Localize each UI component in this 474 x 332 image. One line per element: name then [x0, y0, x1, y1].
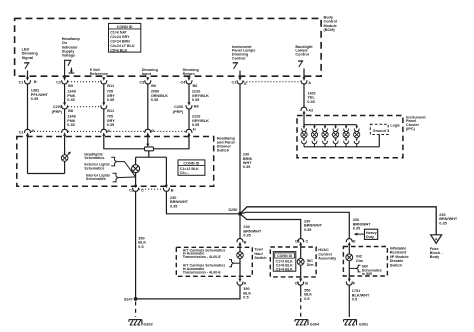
wire HVAC lamp to pin B — [300, 265, 302, 279]
svg-text:350BLK0.5: 350BLK0.5 — [138, 236, 146, 248]
svg-text:A/T Controls Schematicsin Auto: A/T Controls Schematicsin AutomaticTrans… — [183, 248, 226, 259]
svg-text:C1: C1 — [295, 282, 300, 286]
A/T bracket — [229, 260, 233, 267]
dimmer CONN ID table — [178, 160, 205, 175]
dashed lead to G302 — [135, 302, 137, 318]
SIR bracket — [357, 265, 361, 272]
branch to disable switch pin D — [240, 212, 349, 238]
svg-text:BodyControlModule(BCM): BodyControlModule(BCM) — [324, 16, 338, 32]
Dimming Input label — [142, 68, 159, 76]
IPC lamp 6 — [354, 125, 360, 147]
svg-text:InstrumentPanel LampsDimmingCo: InstrumentPanel LampsDimmingControl — [232, 45, 255, 61]
HVAC CONN ID table — [273, 252, 296, 272]
Headlights Schematics label — [84, 152, 104, 160]
wire 1348 PNK lower — [65, 109, 76, 129]
svg-text:Tow/HaulSwitch: Tow/HaulSwitch — [254, 248, 267, 260]
svg-text:1401YEL0.35: 1401YEL0.35 — [307, 91, 315, 103]
svg-text:D: D — [353, 239, 356, 243]
svg-text:INCDim: INCDim — [307, 259, 314, 267]
svg-text:G: G — [151, 129, 154, 133]
tow/haul lamp — [237, 252, 244, 259]
svg-text:CONN ID: CONN ID — [277, 254, 293, 258]
IPC lamp 3 — [322, 125, 328, 147]
svg-text:K: K — [32, 129, 35, 133]
svg-text:A: A — [435, 237, 438, 241]
A/T controls schematics labels — [183, 248, 226, 274]
IPC lamp 2 — [311, 125, 317, 147]
Interior Lights Schematics label — [86, 173, 110, 181]
wire 2226 GRY/BLK upper — [189, 84, 209, 103]
tow/haul pin A — [237, 279, 247, 286]
svg-text:C1=12 BLKC2=--: C1=12 BLKC2=-- — [180, 167, 199, 175]
headlamp-on indicator loop: wire K down — [27, 136, 29, 174]
dashed lead to G304 — [300, 298, 302, 317]
Headlamp On Indicator Supply Voltage label — [62, 37, 81, 58]
wire 550 BLK — [301, 285, 313, 301]
wire 1401 YEL — [304, 84, 316, 107]
BCM CONN ID table — [109, 23, 141, 52]
svg-text:F: F — [353, 282, 356, 286]
disable switch pin F — [346, 279, 356, 286]
wire BCM to pin C1-E — [239, 71, 241, 78]
Dimming Return label — [183, 68, 200, 76]
IP lamps dimming output arrow — [233, 63, 238, 69]
label 230 BRN/WHT D branch — [353, 218, 372, 230]
HVAC pin C1-B — [295, 279, 309, 286]
loop bottom wire — [28, 173, 65, 175]
svg-text:C1: C1 — [129, 189, 134, 193]
Instrument Panel Lamps Dimming Control label — [232, 45, 255, 61]
connector dotted link C2 to B11 — [68, 81, 101, 83]
LED dimming output arrow — [24, 63, 29, 69]
svg-text:C1: C1 — [18, 80, 23, 84]
svg-text:L: L — [67, 129, 70, 133]
svg-text:A: A — [244, 282, 247, 286]
svg-text:SIRSchematicsin SIR: SIRSchematicsin SIR — [362, 265, 382, 276]
pin C1-B — [18, 77, 36, 84]
svg-text:Interior LightsSchematics: Interior LightsSchematics — [86, 173, 110, 181]
ground G302 — [129, 320, 153, 327]
svg-text:INCDim: INCDim — [356, 255, 363, 263]
svg-text:InflatableRestraintI/P ModuleD: InflatableRestraintI/P ModuleDisableSwit… — [390, 247, 409, 268]
svg-text:A: A — [308, 81, 311, 85]
svg-text:C1: C1 — [232, 80, 237, 84]
wire 705 GRY lower — [104, 109, 115, 129]
pin C1-E — [232, 77, 248, 86]
svg-text:G304: G304 — [310, 322, 320, 326]
svg-text:C1: C1 — [295, 239, 300, 243]
svg-text:B9: B9 — [68, 84, 73, 88]
dimmer bottom pin C — [129, 185, 144, 193]
wire BCM to pin A — [303, 69, 305, 78]
dotted link C-B — [139, 188, 163, 190]
pin C2-B9 — [56, 77, 73, 88]
IPC lamp 4 — [333, 125, 339, 147]
svg-text:705GRY0.35: 705GRY0.35 — [107, 90, 116, 102]
svg-text:(PRP): (PRP) — [173, 110, 184, 114]
label 230 BRN/WHT HVAC branch — [304, 220, 323, 232]
tow/haul pin B — [237, 239, 247, 246]
IPC bottom bus — [304, 146, 379, 148]
connector C205 pin B8 — [52, 102, 73, 114]
headlamp and panel dimmer switch box — [17, 137, 236, 187]
potentiometer resistor — [145, 147, 154, 151]
svg-text:5 VoltReference: 5 VoltReference — [90, 68, 108, 76]
fuse block triangle — [431, 235, 442, 244]
svg-text:2090ORN/BLK0.35: 2090ORN/BLK0.35 — [151, 90, 169, 102]
svg-text:HeadlampOnIndicatorSupplyVolta: HeadlampOnIndicatorSupplyVoltage — [62, 37, 81, 58]
line from exterior bracket — [116, 162, 135, 177]
wire ground box to bus — [378, 135, 380, 147]
svg-text:S247: S247 — [124, 298, 133, 302]
pin A (backlight) — [301, 77, 311, 85]
dotted link L-A — [68, 130, 100, 132]
svg-text:1751BLK/WHT0.5: 1751BLK/WHT0.5 — [352, 289, 370, 301]
wire SIR lamp to pin F — [348, 261, 350, 279]
heavy duty flag — [354, 229, 378, 239]
SIR lamp — [346, 254, 353, 261]
svg-text:1348PNK0.35: 1348PNK0.35 — [67, 115, 75, 127]
wire 350 BLK from pin C down to S247 — [136, 191, 147, 299]
wire 230 BRN/WHT from pin B to S250 — [166, 191, 238, 214]
dotted link G-H — [151, 130, 185, 132]
svg-text:CONN ID: CONN ID — [117, 25, 133, 29]
svg-text:B8: B8 — [68, 109, 73, 113]
svg-text:S250: S250 — [228, 208, 237, 212]
line bracket to wire — [349, 267, 356, 269]
IPC lamp 1 — [301, 125, 307, 147]
svg-text:Logic: Logic — [390, 124, 400, 128]
svg-text:HeadlightsSchematics: HeadlightsSchematics — [84, 152, 104, 160]
svg-text:HeavyDuty: HeavyDuty — [366, 231, 377, 239]
svg-text:B: B — [171, 188, 174, 192]
inflatable restraint disable switch box — [343, 247, 408, 277]
splice S250 — [228, 208, 241, 216]
branch to HVAC pin C — [240, 214, 301, 238]
pin L — [62, 129, 70, 136]
loop right wire up to lamp — [64, 161, 66, 173]
label 230 BRN/WHT fuse branch — [439, 213, 458, 225]
svg-text:B6: B6 — [194, 105, 199, 109]
bracket exterior — [111, 157, 116, 166]
svg-text:230BRN/WHT0.35: 230BRN/WHT0.35 — [243, 153, 253, 170]
svg-text:InstrumentPanelCluster(IPC): InstrumentPanelCluster(IPC) — [406, 115, 426, 131]
HVAC control assembly box — [270, 247, 337, 277]
SIR schematics label — [362, 265, 382, 276]
svg-text:FuseBlock -Body: FuseBlock -Body — [430, 247, 443, 259]
svg-text:A/T Controls Schematicsin Auto: A/T Controls Schematicsin AutomaticTrans… — [183, 264, 226, 275]
svg-text:350BLK0.5: 350BLK0.5 — [243, 287, 251, 299]
Backlight Lamps Control label — [295, 45, 313, 57]
tow/haul switch box — [176, 247, 267, 276]
wire pin H to potentiometer right — [154, 136, 190, 149]
svg-text:2226GRY/BLK0.35: 2226GRY/BLK0.35 — [192, 115, 209, 127]
svg-text:705GRY0.35: 705GRY0.35 — [107, 115, 116, 127]
svg-text:C: C — [306, 239, 309, 243]
svg-text:B: B — [244, 241, 247, 245]
svg-text:550BLK0.5: 550BLK0.5 — [304, 288, 312, 300]
svg-text:1382PPL/WHT0.35: 1382PPL/WHT0.35 — [31, 89, 49, 101]
wire 2226 GRY/BLK lower — [189, 109, 209, 129]
svg-text:C1=6 NATC2=24 GRYC3=24 BRNC4=2: C1=6 NATC2=24 GRYC3=24 BRNC4=24 LT BLUC5… — [110, 31, 135, 53]
pot bottom tap — [136, 151, 167, 185]
pin G — [145, 129, 155, 136]
wire S250 down to tow/haul pin B — [240, 214, 262, 238]
wire 350 BLK tow/haul to S247 run — [136, 285, 252, 299]
line bracket to lamp wire — [234, 262, 241, 264]
svg-text:230BRN/WHT0.35: 230BRN/WHT0.35 — [243, 225, 262, 237]
pin H — [186, 128, 196, 136]
wire 1348 PNK upper — [65, 84, 76, 103]
svg-text:Headlampand PanelDimmerSwitch: Headlampand PanelDimmerSwitch — [217, 137, 236, 153]
wire pin C to HVAC lamp — [300, 245, 302, 258]
svg-text:C4: C4 — [181, 80, 187, 84]
wire pin A to potentiometer left — [104, 136, 145, 149]
svg-text:C3: C3 — [139, 80, 144, 84]
wire A2 into IPC — [303, 114, 305, 126]
line from interior bracket — [118, 176, 136, 179]
wire pin D to SIR lamp — [348, 245, 350, 254]
svg-text:230BRN/WHT0.35: 230BRN/WHT0.35 — [353, 218, 372, 230]
wire tow lamp to pin A — [239, 259, 241, 279]
pin A (dimmer) — [101, 129, 111, 136]
svg-text:C2: C2 — [56, 80, 61, 84]
INC Dim label SIR — [356, 255, 363, 263]
splice S247 — [124, 297, 138, 302]
svg-text:Ground: Ground — [373, 129, 386, 133]
INC Dim label HVAC — [307, 259, 314, 267]
IPC top bus — [304, 124, 357, 126]
svg-text:G301: G301 — [359, 322, 368, 326]
svg-text:B: B — [34, 80, 37, 84]
pin C4-B6 — [181, 77, 198, 88]
wire BCM to pin C1-B — [27, 71, 29, 78]
dimmer switch connector row: pin K — [19, 129, 35, 136]
svg-text:B11: B11 — [107, 109, 114, 113]
HVAC lamp — [297, 258, 304, 265]
wire pin G to wiper — [147, 136, 149, 144]
svg-text:H: H — [193, 128, 196, 132]
body control module box — [15, 16, 337, 77]
svg-text:C1: C1 — [19, 131, 24, 135]
svg-text:B11: B11 — [107, 84, 114, 88]
svg-text:B6: B6 — [151, 84, 156, 88]
svg-text:G302: G302 — [143, 322, 152, 326]
dotted link K-L — [31, 130, 61, 132]
connector C206 pin B6 — [173, 102, 199, 114]
pin A2 of IPC — [301, 107, 313, 114]
svg-text:B: B — [305, 282, 308, 286]
IPC lamp 5 — [343, 125, 349, 147]
svg-text:C1=2 BLKC2=8 BLKC3=4 BLK: C1=2 BLKC2=8 BLKC3=4 BLK — [276, 259, 293, 271]
Fuse Block - Body label — [430, 247, 443, 259]
5 Volt Reference label — [90, 68, 108, 76]
svg-text:B6: B6 — [193, 84, 198, 88]
svg-text:A: A — [107, 129, 110, 133]
connector C205 pin B11 — [101, 102, 114, 113]
instrument panel cluster box — [297, 115, 426, 157]
svg-text:Exterior LightsSchematics: Exterior LightsSchematics — [84, 163, 109, 171]
LED Dimming Signal label — [22, 47, 39, 59]
svg-text:A2: A2 — [308, 108, 313, 112]
wire pin B to tow lamp — [239, 245, 241, 252]
svg-text:2226GRY/BLK0.35: 2226GRY/BLK0.35 — [192, 90, 209, 102]
supply voltage arrow col2 — [65, 60, 75, 77]
branch to fuse block — [240, 207, 436, 235]
svg-text:DimmingReturn: DimmingReturn — [183, 68, 200, 76]
svg-text:E: E — [244, 82, 247, 86]
pin C3-B6 — [139, 77, 156, 88]
dimmer output lamp — [132, 165, 140, 173]
disable switch pin D — [346, 239, 356, 246]
wire 1751 BLK/WHT to G301 — [349, 285, 370, 317]
svg-text:BacklightLampsControl: BacklightLampsControl — [295, 45, 313, 57]
svg-text:CONN ID: CONN ID — [183, 161, 199, 165]
svg-text:(PRP): (PRP) — [52, 110, 63, 114]
svg-text:C206: C206 — [174, 105, 183, 109]
ground G304 — [295, 320, 320, 327]
indicator lamp arrow — [67, 152, 71, 156]
svg-text:230BRN/WHT0.35: 230BRN/WHT0.35 — [170, 196, 189, 208]
backlight output arrow — [298, 61, 303, 67]
dotted link A-G — [107, 130, 144, 132]
dotted link C205 B8-B11 — [68, 106, 101, 108]
wire 230 BRN WHT from BCM pin E down — [240, 84, 253, 214]
wire lamp to pin L — [64, 136, 66, 155]
Logic label — [390, 124, 400, 128]
svg-text:230BRN/WHT0.35: 230BRN/WHT0.35 — [304, 220, 323, 232]
svg-text:HVACControlAssembly: HVACControlAssembly — [318, 248, 337, 260]
pin B11 upper — [101, 77, 114, 88]
svg-text:DimmingInput: DimmingInput — [142, 68, 159, 76]
indicator lamp — [61, 155, 68, 162]
wire 705 GRY upper — [104, 84, 115, 103]
bracket interior — [113, 173, 118, 182]
svg-text:C205: C205 — [53, 105, 62, 109]
ground G301 — [344, 320, 369, 327]
dotted link E to A — [243, 81, 300, 83]
svg-text:LEDDimmingSignal: LEDDimmingSignal — [22, 47, 39, 59]
IPC internal ground box — [370, 124, 388, 134]
dimmer bottom pin B — [163, 185, 173, 193]
wire 1382 PPL/WHT col1 — [28, 84, 49, 129]
wiper arrowhead — [146, 144, 149, 147]
wire 2090 ORN/BLK — [148, 84, 168, 129]
svg-text:1348PNK0.35: 1348PNK0.35 — [67, 90, 75, 102]
HVAC pin C1-C — [295, 239, 308, 246]
svg-text:230BRN/WHT0.35: 230BRN/WHT0.35 — [439, 213, 458, 225]
Exterior Lights Schematics label — [84, 163, 109, 171]
